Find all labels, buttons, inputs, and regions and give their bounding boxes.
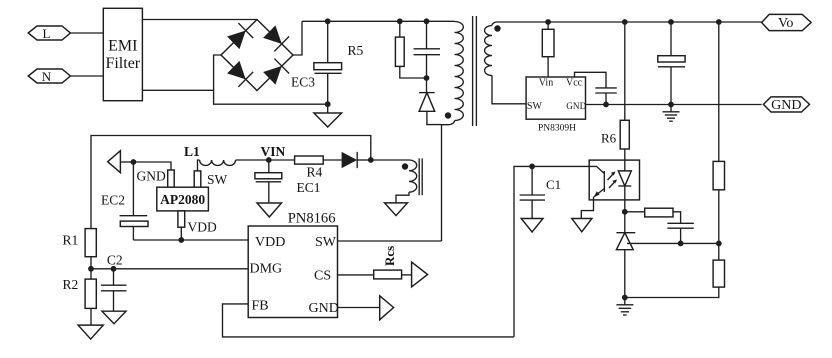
wire EMI top output to bridge [142, 19, 257, 21]
IC U4 PN8166 [248, 211, 339, 318]
svg-text:Filter: Filter [105, 55, 140, 72]
svg-text:L: L [43, 26, 51, 41]
wire SW to transformer [338, 240, 442, 242]
secondary polarity dot [494, 25, 500, 31]
node VIN [266, 157, 272, 163]
optocoupler U3 [581, 160, 639, 218]
node C1 [529, 164, 535, 170]
EMI filter block [103, 8, 142, 100]
node comp cap ref [678, 241, 684, 247]
node right divider rail [716, 19, 722, 25]
node output cap top [668, 19, 674, 25]
svg-text:GND: GND [566, 101, 586, 111]
primary polarity dot [445, 112, 451, 118]
svg-text:R6: R6 [601, 131, 617, 146]
snubber clamp diode [419, 93, 441, 125]
svg-text:EMI: EMI [108, 38, 137, 55]
svg-text:Vin: Vin [539, 78, 553, 89]
capacitor Vcc [595, 88, 617, 105]
svg-text:L1: L1 [184, 144, 200, 159]
wire primary bottom to PN8166 SW [441, 125, 443, 241]
IC U1 AP2080 [157, 187, 209, 211]
wire FB net [514, 166, 589, 337]
node AP2080 gnd [131, 159, 137, 165]
svg-text:SW: SW [527, 101, 543, 112]
svg-text:R4: R4 [307, 165, 323, 180]
resistor R4 [295, 156, 342, 180]
diode D aux [342, 152, 371, 168]
capacitor C2 [101, 253, 127, 312]
snubber capacitor [414, 21, 441, 92]
svg-text:GND: GND [309, 301, 339, 316]
ground below EC3 [314, 113, 342, 127]
resistor R1 [63, 229, 97, 280]
compensation resistor [625, 208, 681, 223]
resistor divider lower [625, 260, 725, 297]
compensation capacitor [667, 223, 693, 243]
resistor R2 [63, 277, 97, 325]
aux core [419, 158, 422, 195]
node snubber cap top [424, 18, 430, 24]
svg-text:R1: R1 [63, 233, 79, 248]
node EC3 top [325, 18, 331, 24]
node diode aux junction [368, 157, 374, 163]
node EC3 bottom junction [325, 101, 331, 107]
svg-text:GND: GND [137, 168, 166, 183]
svg-text:Vcc: Vcc [566, 78, 583, 89]
svg-text:VDD: VDD [188, 220, 217, 235]
connector N [28, 69, 70, 84]
svg-text:PN8166: PN8166 [288, 211, 336, 227]
op-amp U2 PN8309H [526, 77, 586, 134]
HV top rail wire [302, 20, 455, 22]
wire GND pin [338, 307, 380, 309]
transformer aux winding [396, 160, 417, 203]
svg-text:PN8309H: PN8309H [538, 124, 576, 134]
shunt regulator TL431 [616, 212, 635, 298]
bridge rectifier frame [221, 20, 293, 91]
pin VDD AP2080 [178, 211, 185, 240]
ground opto emitter [572, 219, 592, 232]
connector L [28, 26, 70, 41]
wire bridge right vertex to HV rail [293, 21, 302, 55]
svg-text:FB: FB [252, 298, 269, 313]
earth ground output [663, 105, 680, 122]
wire FB routing [223, 304, 515, 337]
ground C1 [521, 219, 543, 233]
resistor R5 snubber [395, 21, 426, 78]
resistor Rcs [374, 246, 412, 279]
node VDD [178, 237, 184, 243]
connector Vo [762, 14, 812, 31]
wire L to EMI [70, 32, 103, 34]
svg-text:N: N [42, 69, 52, 84]
svg-text:VDD: VDD [255, 235, 285, 250]
output electrolytic capacitor [658, 22, 685, 105]
svg-text:SW: SW [207, 172, 228, 187]
node C2 tap [111, 266, 117, 272]
arrow gnd PN8166 [380, 296, 394, 320]
arrow gnd left [108, 151, 121, 173]
inductor L1 [184, 144, 295, 171]
node opto LED cathode [622, 209, 628, 215]
connector GND [763, 97, 809, 113]
node divider mid [716, 241, 722, 247]
node secondary rail Vin resistor [545, 19, 551, 25]
bridge diode bottom-right [262, 59, 289, 86]
aux polarity dot [402, 163, 408, 169]
svg-text:CS: CS [314, 268, 331, 283]
wire TL431 ref [627, 242, 719, 244]
earth ground TL431 [616, 298, 633, 316]
node R6 rail [622, 19, 628, 25]
node Vcc cap to gnd rail [603, 102, 609, 108]
wire VDD rail [133, 239, 248, 241]
node TL431 anode [622, 295, 628, 301]
resistor R6 [601, 22, 629, 160]
pin SW AP2080 [194, 171, 201, 187]
bridge diode top-left [226, 23, 253, 50]
transformer T1 secondary winding [485, 22, 762, 104]
svg-text:DMG: DMG [250, 262, 283, 277]
transformer T1 primary winding [442, 22, 464, 125]
svg-text:EC1: EC1 [297, 180, 321, 195]
arrow gnd CS [412, 262, 428, 287]
svg-text:AP2080: AP2080 [160, 192, 205, 207]
svg-text:SW: SW [315, 235, 337, 250]
svg-text:EC2: EC2 [101, 193, 125, 208]
svg-text:C2: C2 [107, 253, 123, 268]
svg-text:R2: R2 [63, 277, 79, 292]
svg-text:GND: GND [771, 98, 801, 113]
ground C2 [102, 311, 126, 324]
svg-text:R5: R5 [348, 43, 364, 58]
wire rail to divider [718, 22, 720, 161]
wire node to GND pin [133, 162, 171, 170]
wire EMI bottom output [142, 89, 213, 91]
capacitor EC2 [101, 162, 148, 240]
capacitor EC1 [255, 160, 321, 203]
node snubber resistor top [397, 18, 403, 24]
wire bridge left vertex to ground bus [214, 55, 328, 104]
node snubber junction [424, 75, 430, 81]
svg-text:EC3: EC3 [291, 75, 315, 90]
wire junction to aux winding [371, 159, 409, 161]
capacitor C1 [520, 166, 562, 218]
svg-text:C1: C1 [546, 177, 561, 192]
wire DMG [91, 268, 248, 270]
wire aux feedback top [91, 136, 371, 229]
wire Vcc to cap [575, 72, 607, 88]
bridge diode top-right [262, 24, 289, 51]
resistor Vin feed [542, 22, 554, 77]
resistor divider upper [713, 161, 724, 260]
ground EC1 [257, 203, 282, 217]
svg-text:Rcs: Rcs [382, 246, 397, 266]
wire CS [338, 274, 374, 276]
capacitor EC3 [291, 21, 342, 113]
transformer T1 core [473, 16, 477, 126]
ground R2 [78, 325, 103, 339]
node R1 R2 [88, 266, 94, 272]
svg-text:Vo: Vo [778, 16, 793, 31]
ground aux [385, 203, 408, 216]
wire N to EMI [70, 75, 103, 77]
node output cap bottom [668, 102, 674, 108]
wire arrow to node [120, 161, 133, 163]
pin GND AP2080 [168, 170, 175, 187]
svg-text:VIN: VIN [261, 144, 286, 159]
secondary GND rail [586, 104, 762, 106]
bridge diode bottom-left [226, 60, 253, 87]
